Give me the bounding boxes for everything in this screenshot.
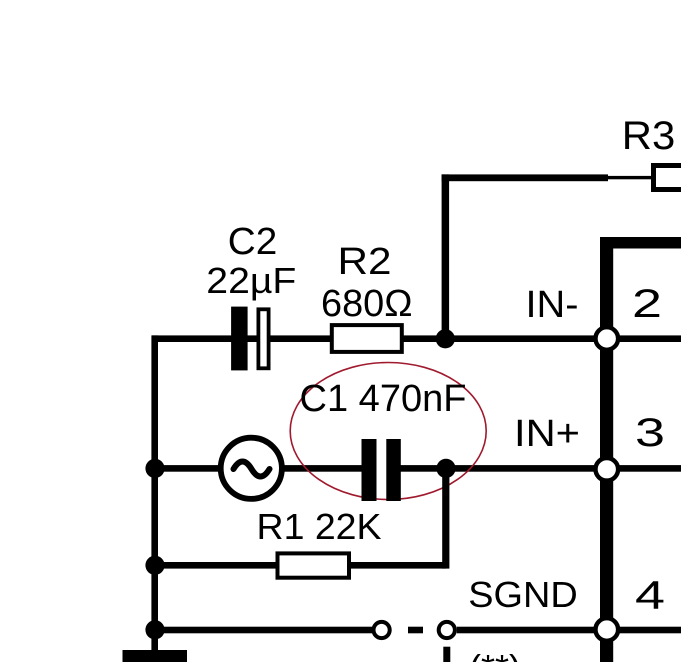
AC source V1 sine wave [234, 462, 270, 477]
AC source V1 circle [221, 438, 282, 499]
svg-text:R2: R2 [338, 241, 392, 283]
junction dot on left rail (IN+ row) [145, 459, 164, 478]
svg-text:(**): (**) [469, 647, 521, 662]
pin 3 terminal circle [596, 458, 619, 481]
capacitor C1 left plate [362, 439, 377, 501]
junction dot on left rail (SGND row) [145, 620, 164, 639]
jumper terminal circle right [439, 622, 455, 638]
jumper terminal circle left [374, 622, 390, 638]
wire: SGND row left segment [152, 627, 372, 634]
dash between jumper terminals [408, 627, 423, 634]
red annotation ellipse around C1 [290, 363, 486, 500]
svg-text:C1 470nF: C1 470nF [300, 378, 467, 420]
svg-text:R1 22K: R1 22K [257, 506, 382, 547]
svg-text:R3: R3 [622, 114, 676, 158]
svg-text:SGND: SGND [468, 574, 578, 615]
resistor R1 [278, 553, 350, 577]
wire: IN- row right of pin 2 [613, 335, 681, 342]
capacitor C2 left electrode [231, 307, 248, 371]
svg-text:2: 2 [632, 282, 662, 326]
svg-text:4: 4 [635, 574, 665, 618]
svg-text:22µF: 22µF [206, 260, 296, 301]
svg-text:680Ω: 680Ω [321, 283, 413, 325]
resistor R3 [654, 166, 681, 190]
node A junction dot (IN- row) [436, 329, 455, 348]
wire: IN- row horizontal (left vertical to pin 2) [152, 335, 597, 342]
node B junction dot (IN+ row) [436, 459, 455, 478]
dashed vertical below right jumper terminal [443, 647, 450, 662]
svg-text:IN-: IN- [526, 284, 579, 326]
svg-text:C2: C2 [228, 221, 278, 263]
wire: left vertical rail [151, 335, 158, 651]
wire: R1 row horizontal [152, 562, 446, 569]
resistor R2 [332, 325, 402, 352]
IC U1 top edge [600, 237, 681, 249]
wire: vertical from node B down to R1 row [442, 465, 449, 568]
svg-text:3: 3 [635, 411, 665, 455]
wire: IN+ row left segment (left rail to C1 left plate) [152, 465, 370, 472]
capacitor C2 right electrode [258, 309, 268, 368]
ground symbol bar [123, 650, 188, 662]
wire: top horizontal from node A to R3 [442, 174, 608, 181]
capacitor C1 right plate [386, 439, 401, 501]
wire: SGND row right segment to pin 4 and beyond [457, 627, 681, 634]
junction dot on left rail (R1 row) [145, 556, 164, 575]
wire: thin lead into R3 [608, 176, 653, 179]
pin 4 terminal circle [596, 618, 619, 641]
wire: vertical from top wire down to node A [442, 174, 450, 341]
svg-text:IN+: IN+ [514, 413, 580, 455]
wire: IN+ row right segment (C1 right plate to pin 3 and beyond) [390, 465, 681, 472]
IC U1 left edge [600, 237, 613, 662]
pin 2 terminal circle [596, 327, 619, 350]
